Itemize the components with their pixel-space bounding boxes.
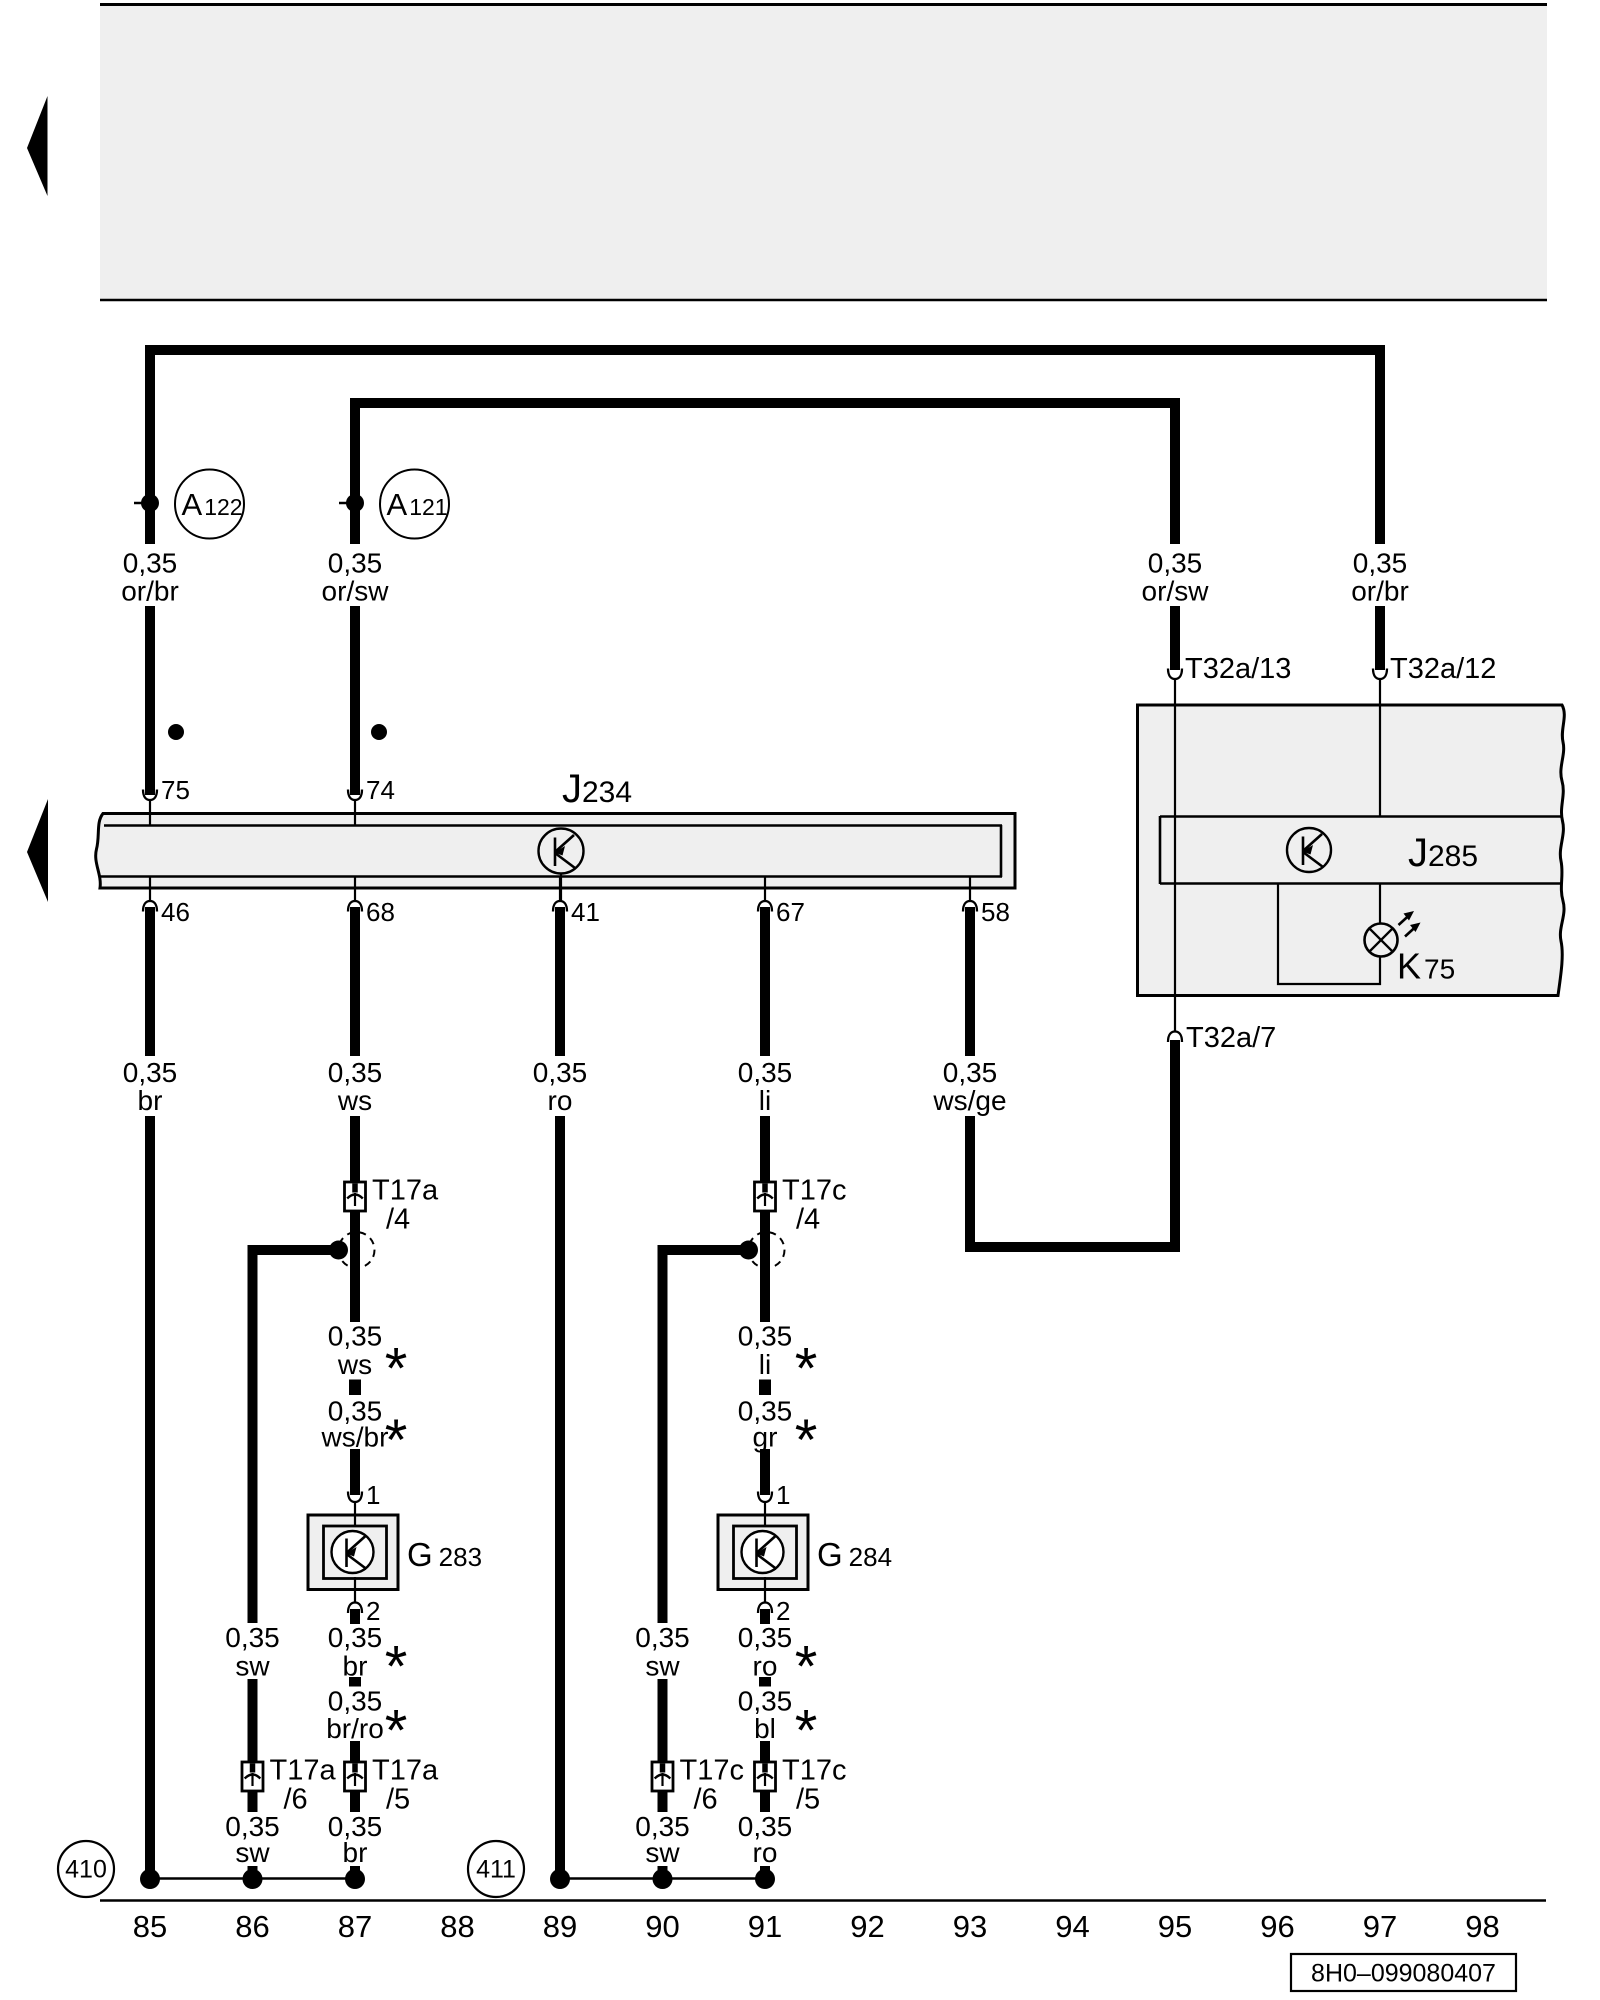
svg-text:ws: ws xyxy=(337,1085,372,1116)
svg-text:87: 87 xyxy=(338,1909,372,1944)
svg-text:0,35: 0,35 xyxy=(225,1622,280,1653)
svg-text:97: 97 xyxy=(1363,1909,1397,1944)
svg-text:*: * xyxy=(385,1635,408,1700)
svg-text:0,35: 0,35 xyxy=(738,1057,793,1088)
svg-text:74: 74 xyxy=(366,775,395,805)
svg-text:85: 85 xyxy=(133,1909,167,1944)
svg-text:G284: G284 xyxy=(817,1536,892,1573)
svg-text:92: 92 xyxy=(850,1909,884,1944)
svg-text:br/ro: br/ro xyxy=(326,1713,384,1744)
svg-text:67: 67 xyxy=(776,897,805,927)
svg-text:ro: ro xyxy=(753,1837,778,1868)
svg-text:or/br: or/br xyxy=(1351,576,1409,607)
svg-text:89: 89 xyxy=(543,1909,577,1944)
svg-text:93: 93 xyxy=(953,1909,987,1944)
svg-text:46: 46 xyxy=(161,897,190,927)
svg-text:/5: /5 xyxy=(386,1784,410,1816)
svg-text:96: 96 xyxy=(1260,1909,1294,1944)
svg-text:sw: sw xyxy=(235,1837,270,1868)
svg-text:br: br xyxy=(343,1837,368,1868)
svg-text:sw: sw xyxy=(645,1651,680,1682)
svg-text:*: * xyxy=(385,1337,408,1402)
svg-text:1: 1 xyxy=(366,1480,380,1510)
svg-text:1: 1 xyxy=(776,1480,790,1510)
svg-text:41: 41 xyxy=(571,897,600,927)
svg-text:sw: sw xyxy=(645,1837,680,1868)
svg-text:ro: ro xyxy=(753,1651,778,1682)
svg-text:0,35: 0,35 xyxy=(1353,548,1408,579)
svg-text:*: * xyxy=(795,1699,818,1764)
svg-text:0,35: 0,35 xyxy=(635,1622,690,1653)
svg-text:T17a: T17a xyxy=(270,1755,337,1787)
svg-text:ws/br: ws/br xyxy=(321,1422,389,1453)
svg-text:75: 75 xyxy=(161,775,190,805)
svg-text:0,35: 0,35 xyxy=(328,548,383,579)
svg-text:0,35: 0,35 xyxy=(328,1321,383,1352)
svg-text:*: * xyxy=(795,1408,818,1473)
svg-text:T32a/7: T32a/7 xyxy=(1186,1022,1276,1054)
svg-text:95: 95 xyxy=(1158,1909,1192,1944)
svg-text:T32a/12: T32a/12 xyxy=(1390,653,1496,685)
svg-text:T17c: T17c xyxy=(680,1755,744,1787)
svg-text:0,35: 0,35 xyxy=(328,1057,383,1088)
svg-text:98: 98 xyxy=(1465,1909,1499,1944)
svg-text:86: 86 xyxy=(235,1909,269,1944)
svg-text:*: * xyxy=(385,1699,408,1764)
svg-text:68: 68 xyxy=(366,897,395,927)
svg-text:*: * xyxy=(795,1337,818,1402)
svg-text:0,35: 0,35 xyxy=(1148,548,1203,579)
svg-text:/6: /6 xyxy=(284,1784,308,1816)
svg-text:0,35: 0,35 xyxy=(123,1057,178,1088)
svg-text:88: 88 xyxy=(440,1909,474,1944)
svg-text:90: 90 xyxy=(645,1909,679,1944)
svg-text:or/br: or/br xyxy=(121,576,179,607)
svg-text:0,35: 0,35 xyxy=(328,1622,383,1653)
svg-text:T17a: T17a xyxy=(372,1175,439,1207)
svg-text:*: * xyxy=(385,1408,408,1473)
svg-text:0,35: 0,35 xyxy=(533,1057,588,1088)
svg-text:sw: sw xyxy=(235,1651,270,1682)
svg-text:or/sw: or/sw xyxy=(1142,576,1210,607)
svg-text:/4: /4 xyxy=(796,1204,820,1236)
svg-text:0,35: 0,35 xyxy=(738,1321,793,1352)
svg-text:or/sw: or/sw xyxy=(322,576,390,607)
svg-text:0,35: 0,35 xyxy=(123,548,178,579)
svg-text:li: li xyxy=(759,1349,771,1380)
svg-text:bl: bl xyxy=(754,1713,776,1744)
svg-text:0,35: 0,35 xyxy=(738,1622,793,1653)
svg-text:br: br xyxy=(138,1085,163,1116)
svg-text:0,35: 0,35 xyxy=(943,1057,998,1088)
svg-text:58: 58 xyxy=(981,897,1010,927)
svg-text:T17c: T17c xyxy=(782,1175,846,1207)
svg-text:li: li xyxy=(759,1085,771,1116)
svg-text:gr: gr xyxy=(753,1422,778,1453)
svg-text:/4: /4 xyxy=(386,1204,410,1236)
svg-text:94: 94 xyxy=(1055,1909,1089,1944)
svg-text:410: 410 xyxy=(65,1856,107,1884)
svg-text:ws: ws xyxy=(337,1349,372,1380)
svg-text:8H0–099080407: 8H0–099080407 xyxy=(1311,1960,1496,1988)
svg-text:411: 411 xyxy=(476,1856,516,1884)
svg-text:0,35: 0,35 xyxy=(738,1686,793,1717)
svg-text:0,35: 0,35 xyxy=(328,1686,383,1717)
svg-text:91: 91 xyxy=(748,1909,782,1944)
svg-text:/5: /5 xyxy=(796,1784,820,1816)
svg-text:ws/ge: ws/ge xyxy=(932,1085,1006,1116)
svg-text:T32a/13: T32a/13 xyxy=(1185,653,1291,685)
svg-text:/6: /6 xyxy=(694,1784,718,1816)
svg-text:G283: G283 xyxy=(407,1536,482,1573)
svg-text:br: br xyxy=(343,1651,368,1682)
svg-text:*: * xyxy=(795,1635,818,1700)
svg-text:ro: ro xyxy=(548,1085,573,1116)
